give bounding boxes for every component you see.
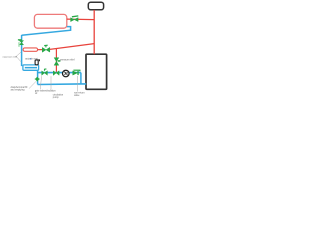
valve V2 tap on left vertical bbox=[18, 39, 24, 47]
svg-text:expansion refill: expansion refill bbox=[3, 55, 18, 58]
valve V6 on main pipe at safety drop bbox=[53, 71, 59, 76]
label L6 bbox=[53, 94, 64, 99]
wire cyan return into boiler bbox=[38, 83, 87, 86]
wire cyan tank hook bbox=[22, 27, 71, 36]
leader for label L7 bbox=[77, 76, 79, 92]
pump P1 (circle) bbox=[63, 70, 70, 77]
label L4 bbox=[11, 86, 28, 91]
svg-text:pump: pump bbox=[53, 97, 59, 99]
boiler B1 (dark rectangle) bbox=[86, 54, 107, 89]
heating element H1 (red rounded rectangle) bbox=[23, 48, 37, 51]
wire red vertical main riser bbox=[93, 10, 95, 54]
svg-text:and emptying: and emptying bbox=[11, 89, 26, 92]
leader for label L4 bbox=[29, 81, 36, 88]
valve V1 on tank feed bbox=[71, 16, 79, 22]
label L2 bbox=[25, 58, 38, 61]
svg-text:valve: valve bbox=[74, 95, 80, 97]
wire cyan radiator right vertical bbox=[37, 70, 39, 84]
radiator R1 (cyan) bbox=[23, 65, 39, 70]
leader for label L5 bbox=[40, 76, 41, 89]
label L7 bbox=[74, 92, 85, 97]
svg-text:gate valves/isolation: gate valves/isolation bbox=[35, 90, 56, 93]
wire red slanted to riser bbox=[50, 44, 94, 50]
wire cyan main lower pipe bbox=[38, 72, 81, 74]
air vent P2 (black, on radiator) bbox=[35, 60, 39, 65]
svg-text:auto air vent: auto air vent bbox=[25, 58, 38, 61]
label L5 bbox=[35, 90, 56, 95]
drain valve V8 (green diamond) bbox=[34, 77, 40, 82]
wire cyan left vertical bbox=[21, 35, 23, 66]
leader for label L6 bbox=[50, 76, 52, 90]
wire cyan down to return bbox=[80, 73, 82, 84]
valve V5 on main pipe bbox=[42, 69, 48, 75]
wire red element to valve bbox=[38, 49, 43, 51]
wire red tank to riser bbox=[67, 18, 94, 21]
valve V4 on safety drop bbox=[54, 58, 60, 65]
valve V3 on red pipe bbox=[42, 45, 50, 52]
leader for label L1 bbox=[16, 52, 21, 62]
svg-text:x2: x2 bbox=[35, 93, 38, 95]
header tank T1 (red rounded rectangle) bbox=[34, 14, 66, 28]
wire red safety drop bbox=[55, 49, 57, 73]
expansion box E1 (top dark rounded rectangle) bbox=[88, 2, 103, 10]
svg-text:pressure relief: pressure relief bbox=[60, 59, 75, 62]
check valve V7 bbox=[73, 70, 80, 75]
